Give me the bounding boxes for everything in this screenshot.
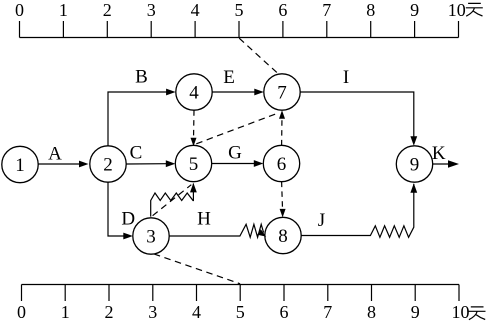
svg-text:6: 6: [278, 0, 287, 20]
svg-text:3: 3: [146, 226, 156, 247]
svg-text:5: 5: [236, 302, 245, 322]
svg-text:2: 2: [103, 154, 113, 175]
svg-text:4: 4: [189, 82, 199, 103]
svg-text:6: 6: [280, 302, 289, 322]
svg-text:4: 4: [192, 302, 201, 322]
svg-text:1: 1: [61, 302, 70, 322]
svg-text:G: G: [228, 143, 242, 164]
svg-text:0: 0: [15, 0, 24, 20]
svg-text:1: 1: [15, 155, 25, 176]
svg-text:3: 3: [148, 302, 157, 322]
svg-text:5: 5: [235, 0, 244, 20]
svg-text:9: 9: [410, 154, 420, 175]
svg-text:I: I: [343, 67, 349, 88]
svg-text:3: 3: [147, 0, 156, 20]
svg-text:2: 2: [103, 0, 112, 20]
svg-text:E: E: [223, 67, 235, 88]
svg-text:C: C: [130, 143, 143, 164]
svg-text:9: 9: [411, 302, 420, 322]
svg-text:4: 4: [191, 0, 200, 20]
svg-text:2: 2: [105, 302, 114, 322]
svg-text:8: 8: [367, 302, 376, 322]
svg-text:0: 0: [17, 302, 26, 322]
svg-text:10: 10: [448, 0, 466, 20]
svg-text:9: 9: [410, 0, 419, 20]
svg-text:5: 5: [189, 154, 199, 175]
svg-text:8: 8: [278, 226, 288, 247]
svg-text:7: 7: [277, 82, 287, 103]
svg-text:6: 6: [277, 154, 287, 175]
svg-text:K: K: [432, 143, 446, 164]
svg-text:10: 10: [452, 302, 470, 322]
svg-text:1: 1: [59, 0, 68, 20]
svg-text:D: D: [121, 209, 135, 230]
svg-text:7: 7: [322, 0, 331, 20]
svg-text:A: A: [48, 144, 62, 165]
svg-text:8: 8: [366, 0, 375, 20]
svg-text:H: H: [197, 209, 211, 230]
svg-text:J: J: [318, 210, 325, 231]
svg-text:B: B: [135, 67, 148, 88]
svg-text:7: 7: [323, 302, 332, 322]
